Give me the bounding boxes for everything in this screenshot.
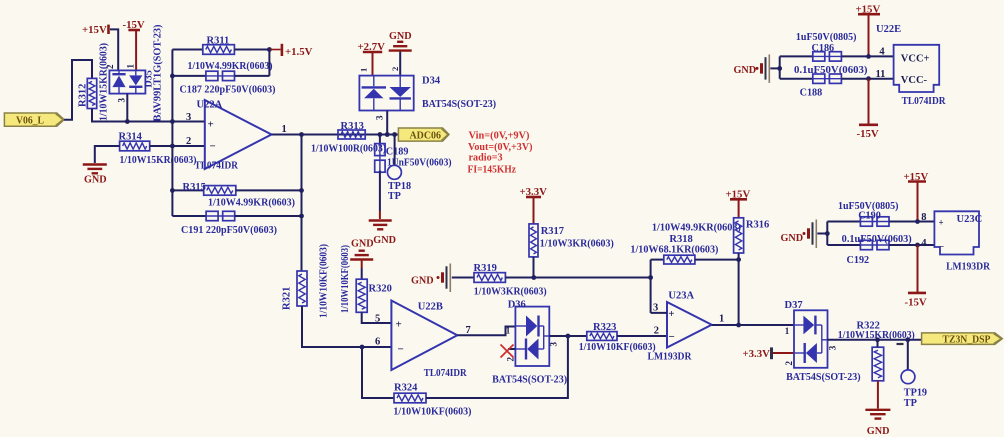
- svg-text:3: 3: [828, 345, 838, 350]
- svg-text:C190: C190: [858, 210, 881, 221]
- junction +1.5V node: [267, 47, 272, 52]
- resistor R320: [356, 279, 367, 312]
- svg-text:R315: R315: [183, 182, 206, 193]
- svg-text:R316: R316: [746, 219, 769, 230]
- op-amp U22B: [391, 301, 457, 371]
- svg-text:GND: GND: [373, 235, 396, 246]
- svg-text:1/10W15KR(0603): 1/10W15KR(0603): [120, 155, 197, 166]
- junction R318-R316: [736, 257, 741, 262]
- junction feedback-pin2: [170, 144, 175, 149]
- resistor R316: [734, 218, 744, 253]
- junction C191 right: [299, 214, 304, 219]
- wire C189 to ground: [379, 171, 381, 211]
- svg-text:3: 3: [186, 112, 191, 123]
- svg-text:R317: R317: [541, 226, 564, 237]
- junction TP19: [905, 337, 910, 342]
- svg-text:1/10W10KF(0603): 1/10W10KF(0603): [393, 407, 471, 418]
- junction -15V pin4: [915, 243, 920, 248]
- wire GND to R319: [452, 277, 474, 279]
- svg-text:BAT54S(SOT-23): BAT54S(SOT-23): [786, 372, 861, 383]
- svg-text:GND: GND: [867, 426, 890, 437]
- svg-text:3: 3: [653, 303, 658, 314]
- svg-text:U23C: U23C: [957, 214, 983, 225]
- svg-text:TP: TP: [388, 191, 401, 202]
- wire D36 pin3: [549, 335, 587, 337]
- svg-text:1/10W3KR(0603): 1/10W3KR(0603): [540, 239, 614, 250]
- svg-text:1/10W10KF(0603): 1/10W10KF(0603): [319, 244, 330, 318]
- resistor R318: [651, 259, 664, 261]
- junction gnd: [777, 66, 782, 71]
- tick near TP19: [897, 343, 904, 345]
- junction R315 left: [170, 188, 175, 193]
- IC U22E power box: [894, 45, 940, 92]
- svg-text:2: 2: [186, 136, 191, 147]
- wire U23A pin3: [651, 312, 667, 314]
- svg-text:U22B: U22B: [418, 301, 443, 312]
- wire U22A output: [272, 134, 399, 136]
- resistor R315: [172, 189, 203, 191]
- svg-text:1/10W15KR(0603): 1/10W15KR(0603): [838, 330, 915, 341]
- svg-text:TP: TP: [904, 398, 917, 409]
- power +1.5V: [269, 49, 280, 51]
- wire U23A output: [712, 324, 794, 326]
- svg-text:R319: R319: [474, 263, 497, 274]
- svg-text:1/10W49.9KR(0603): 1/10W49.9KR(0603): [652, 223, 741, 234]
- op-amp U22A: [205, 100, 272, 169]
- svg-text:1: 1: [282, 124, 287, 135]
- svg-text:1: 1: [719, 313, 724, 324]
- ground (C189): [369, 219, 392, 221]
- svg-text:1UnF50V(0603): 1UnF50V(0603): [387, 157, 452, 168]
- wire V06_L to R312: [64, 60, 92, 120]
- svg-text:BAT54S(SOT-23): BAT54S(SOT-23): [492, 375, 567, 386]
- svg-text:TP19: TP19: [904, 388, 927, 399]
- wire U22B output: [457, 327, 515, 336]
- junction D36 pin3: [566, 334, 571, 339]
- svg-text:GND: GND: [734, 65, 757, 76]
- svg-text:1/10W10KF(0603): 1/10W10KF(0603): [579, 342, 656, 353]
- svg-text:ADC06: ADC06: [410, 130, 442, 141]
- wire R311 right: [234, 49, 269, 51]
- capacitor C189: [379, 135, 381, 146]
- svg-text:D34: D34: [422, 76, 441, 87]
- svg-text:VCC-: VCC-: [901, 75, 928, 86]
- svg-text:GND: GND: [84, 175, 107, 186]
- svg-text:−: −: [210, 141, 216, 153]
- svg-text:R323: R323: [593, 322, 616, 333]
- junction R315 right: [299, 188, 304, 193]
- svg-text:TZ3N_DSP: TZ3N_DSP: [943, 334, 992, 345]
- svg-text:R320: R320: [369, 284, 392, 295]
- svg-text:2: 2: [390, 67, 400, 71]
- svg-text:8: 8: [921, 212, 926, 223]
- svg-text:BAV99LT1G(SOT-23): BAV99LT1G(SOT-23): [153, 25, 164, 122]
- svg-text:Vin=(0V,+9V): Vin=(0V,+9V): [469, 131, 530, 142]
- svg-text:FI=145KHz: FI=145KHz: [468, 165, 517, 176]
- svg-text:GND: GND: [411, 276, 434, 287]
- ground (R322): [865, 409, 890, 411]
- svg-text:+: +: [396, 319, 402, 331]
- svg-text:C188: C188: [800, 88, 823, 99]
- diode D35 BAV99LT1G: [109, 70, 145, 93]
- svg-text:+1.5V: +1.5V: [285, 46, 313, 58]
- svg-text:GND: GND: [351, 239, 374, 250]
- svg-text:GND: GND: [389, 31, 412, 42]
- svg-text:VCC+: VCC+: [901, 53, 930, 64]
- svg-text:+3.3V: +3.3V: [743, 348, 771, 360]
- svg-text:4: 4: [879, 47, 885, 58]
- junction C187 left: [170, 74, 175, 79]
- svg-text:+15V: +15V: [82, 24, 107, 36]
- resistor R319: [474, 273, 505, 283]
- resistor R314: [120, 141, 150, 151]
- junction -15V pin11: [866, 76, 871, 81]
- op-amp U23A: [667, 302, 712, 348]
- wire R324 to D36 pin3 node: [426, 336, 568, 398]
- test point TP19: [907, 340, 909, 370]
- wire riser to R318 and pin3: [650, 260, 652, 313]
- svg-text:3: 3: [375, 115, 385, 120]
- capacitor C191: [172, 215, 206, 217]
- svg-text:D36: D36: [508, 299, 526, 310]
- resistor R313: [338, 130, 365, 139]
- wire R320 to pin5: [362, 312, 392, 323]
- svg-text:R318: R318: [669, 234, 692, 245]
- IC U23C power box: [934, 211, 979, 254]
- svg-text:1: 1: [359, 68, 369, 72]
- svg-text:4: 4: [921, 238, 927, 249]
- resistor R312: [87, 78, 96, 108]
- wire left vertical 2: [826, 222, 828, 246]
- power -15V (U23C): [917, 245, 919, 292]
- wire R317 to node: [533, 257, 535, 278]
- wire pin6 to R324: [362, 347, 394, 398]
- svg-text:2: 2: [784, 361, 794, 366]
- svg-text:1/10W4.99KR(0603): 1/10W4.99KR(0603): [208, 198, 295, 209]
- resistor R323: [587, 332, 617, 341]
- capacitor C188: [780, 78, 813, 80]
- svg-text:R312: R312: [78, 84, 89, 107]
- svg-text:1/10W3KR(0603): 1/10W3KR(0603): [474, 286, 547, 297]
- svg-text:−: −: [939, 242, 944, 252]
- junction D34 tap: [385, 132, 390, 137]
- svg-text:V06_L: V06_L: [16, 115, 44, 126]
- svg-text:1/10W68.1KR(0603): 1/10W68.1KR(0603): [630, 244, 718, 255]
- svg-text:TL074IDR: TL074IDR: [195, 161, 239, 172]
- svg-text:−: −: [398, 344, 404, 356]
- wire D37 pin3 to port: [828, 339, 922, 341]
- capacitor C186: [780, 55, 813, 57]
- resistor R317: [529, 224, 538, 257]
- junction TP18 tap: [392, 132, 397, 137]
- svg-text:U23A: U23A: [668, 290, 694, 301]
- junction +15V pin4: [866, 54, 871, 59]
- wire R314 to pin2: [150, 145, 205, 147]
- svg-text:1: 1: [126, 64, 136, 69]
- svg-text:D37: D37: [785, 300, 803, 311]
- svg-text:LM193DR: LM193DR: [946, 261, 990, 272]
- svg-text:+: +: [668, 308, 674, 320]
- test point TP18: [394, 135, 396, 166]
- port V06_L: [4, 113, 64, 126]
- svg-text:2: 2: [105, 64, 115, 69]
- wire GND to R314: [95, 146, 120, 163]
- junction gnd2: [825, 231, 830, 236]
- svg-text:BAT54S(SOT-23): BAT54S(SOT-23): [422, 99, 496, 110]
- svg-text:U22E: U22E: [876, 24, 901, 35]
- svg-text:radio=3: radio=3: [469, 153, 503, 164]
- svg-text:R311: R311: [207, 36, 230, 47]
- wire D35 pin3: [126, 94, 128, 122]
- resistor R311: [172, 49, 202, 51]
- capacitor C192: [827, 244, 860, 246]
- wire feedback vertical: [171, 50, 173, 217]
- wire R319 to U23A node: [505, 277, 650, 279]
- svg-text:C186: C186: [812, 43, 835, 54]
- svg-text:-15V: -15V: [905, 297, 927, 309]
- svg-text:0.1uF50V(0603): 0.1uF50V(0603): [794, 65, 868, 76]
- junction output-R316: [736, 323, 741, 328]
- wire R312 to node A: [92, 109, 205, 122]
- svg-text:GND: GND: [781, 233, 804, 244]
- port ADC06: [398, 128, 449, 141]
- svg-text:R313: R313: [341, 121, 364, 132]
- ground (R314): [83, 163, 107, 165]
- diode D36 BAT54S: [515, 307, 549, 366]
- wire left vertical: [779, 56, 781, 78]
- junction node A: [125, 119, 130, 124]
- junction U23A pin3 riser: [648, 275, 653, 280]
- svg-text:R321: R321: [282, 287, 293, 310]
- svg-text:0.1uF50V(0603): 0.1uF50V(0603): [842, 234, 912, 245]
- svg-text:3: 3: [117, 98, 127, 103]
- svg-text:1/10W15KR(0603): 1/10W15KR(0603): [99, 43, 110, 121]
- port TZ3N_DSP: [922, 333, 1003, 345]
- svg-text:1: 1: [785, 326, 790, 336]
- resistor R322: [872, 347, 884, 381]
- svg-text:2: 2: [506, 357, 516, 362]
- svg-text:5: 5: [375, 314, 380, 325]
- wire output to feedback/R321: [301, 135, 303, 272]
- svg-text:TL074IDR: TL074IDR: [902, 96, 946, 107]
- svg-text:R314: R314: [119, 132, 143, 143]
- capacitor C187: [172, 75, 205, 77]
- svg-text:1/10W10KF(0603): 1/10W10KF(0603): [340, 245, 351, 313]
- svg-text:1uF50V(0805): 1uF50V(0805): [796, 32, 857, 43]
- wire D34 pin3: [386, 111, 388, 135]
- svg-text:3: 3: [549, 342, 559, 347]
- diode D34 BAT54S: [359, 76, 413, 111]
- svg-text:−: −: [669, 331, 675, 343]
- svg-text:R324: R324: [394, 383, 418, 394]
- wire R323 to U23A pin2: [617, 335, 667, 337]
- svg-text:C192: C192: [847, 255, 870, 266]
- junction output: [299, 132, 304, 137]
- svg-text:+: +: [208, 118, 214, 130]
- svg-text:U22A: U22A: [197, 100, 223, 111]
- svg-text:C189: C189: [386, 147, 409, 158]
- capacitor C190: [827, 221, 860, 223]
- svg-text:11: 11: [876, 69, 886, 80]
- junction R322: [875, 337, 880, 342]
- svg-text:C187 220pF50V(0603): C187 220pF50V(0603): [180, 85, 276, 96]
- wire R316 down to output: [738, 253, 740, 325]
- svg-text:LM193DR: LM193DR: [648, 351, 692, 362]
- junction pin6: [360, 345, 365, 350]
- junction +15V pin8: [915, 219, 920, 224]
- svg-text:+: +: [939, 218, 944, 228]
- svg-text:1: 1: [506, 326, 511, 336]
- svg-text:6: 6: [375, 337, 380, 348]
- resistor R324: [394, 393, 426, 403]
- svg-text:Vout=(0V,+3V): Vout=(0V,+3V): [468, 142, 533, 153]
- resistor R321: [297, 271, 307, 306]
- junction C189 tap: [378, 132, 383, 137]
- svg-text:TL074IDR: TL074IDR: [424, 368, 467, 379]
- svg-text:C191 220pF50V(0603): C191 220pF50V(0603): [181, 225, 277, 236]
- no-connect X on D36 pin2: [508, 348, 515, 350]
- junction R317: [531, 275, 536, 280]
- power -15V (U22E): [868, 79, 870, 125]
- junction feedback-pin3: [170, 119, 175, 124]
- svg-text:2: 2: [654, 325, 659, 336]
- svg-text:-15V: -15V: [857, 128, 879, 140]
- wire R322 to ground: [877, 381, 879, 409]
- diode D37 BAT54S: [794, 310, 828, 368]
- wire R321 to pin6: [302, 306, 391, 347]
